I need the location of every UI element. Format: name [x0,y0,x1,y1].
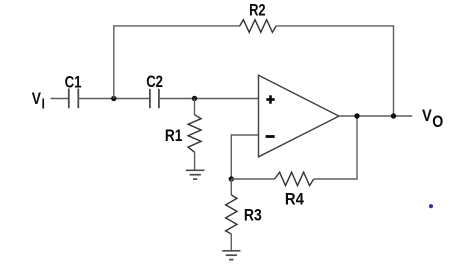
resistor R4 [275,172,314,185]
svg-text:I: I [42,95,45,112]
wire output branch vertical [356,116,358,180]
wire node B to R1 [194,99,196,116]
label VI [32,90,45,113]
wire inverting input horizontal [231,134,258,136]
node D output junction [354,113,359,118]
wire R3 to ground [230,234,232,251]
wire node C to R3 [230,179,232,195]
node A junction C1-C2-feedback [111,96,116,101]
svg-text:R3: R3 [244,205,262,224]
wire C1 to C2 [78,98,149,100]
svg-text:R1: R1 [165,126,183,145]
wire op-amp output to VO [339,115,412,117]
label VO [422,106,443,131]
resistor R1 [188,115,201,153]
wire C2 to op-amp noninverting input [159,98,259,100]
capacitor C2 [150,89,159,108]
ground below R1 [186,170,205,179]
svg-text:C2: C2 [146,72,163,91]
svg-text:C1: C1 [65,72,82,91]
resistor R2 [240,20,276,33]
wire R4 to output branch [314,178,357,180]
svg-text:R4: R4 [285,189,304,208]
svg-text:R2: R2 [249,0,266,19]
node B junction C2-R1-plus [192,96,197,101]
ground below R3 [222,251,240,260]
svg-text:O: O [432,113,443,131]
svg-text:V: V [422,106,432,125]
node C junction minus-R3-R4 [229,176,234,181]
wire feedback right vertical [393,25,395,116]
wire feedback left vertical [113,26,115,99]
wire inverting input vertical [230,134,232,179]
resistor R3 [226,195,237,234]
wire R2 to right corner [276,25,393,27]
wire VI to C1 [51,98,69,100]
stray blue dot [429,204,433,208]
wire node C to R4 [231,178,274,180]
wire top left to R2 [113,25,240,27]
svg-text:V: V [32,90,41,108]
op-amp U1 [259,75,340,157]
capacitor C1 [69,89,79,109]
wire R1 to ground [194,152,196,170]
node E feedback junction [391,113,396,118]
